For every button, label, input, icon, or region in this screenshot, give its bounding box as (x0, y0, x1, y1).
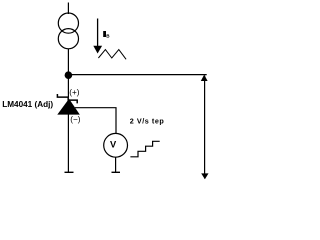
wire feedback tap to source V1 (75, 108, 116, 134)
svg-text:(−): (−) (70, 115, 81, 124)
current source I1 (two overlapping circles) (58, 13, 78, 49)
arrow IB bias current (93, 19, 102, 54)
wire node A to cathode (67, 75, 69, 97)
wire top rail (68, 74, 206, 76)
svg-text:B: B (106, 34, 110, 39)
staircase-wave symbol (130, 141, 159, 157)
wire top supply stub (67, 3, 69, 15)
LM4041 D1 anode triangle (57, 99, 80, 115)
wire anode down (67, 115, 69, 173)
svg-text:LM4041 (Adj): LM4041 (Adj) (2, 100, 53, 109)
wire current source to node A (67, 49, 69, 75)
wire source bottom (115, 157, 117, 172)
triangle-wave symbol (98, 50, 126, 60)
label IB (103, 31, 106, 37)
svg-text:(+): (+) (69, 88, 80, 97)
voltage source V1 (104, 133, 128, 157)
node A junction dot (65, 71, 73, 79)
LM4041 D1 cathode bar (57, 94, 77, 103)
svg-text:2 V/s tep: 2 V/s tep (130, 116, 165, 125)
terminal tick bottom middle (112, 171, 121, 173)
svg-text:V: V (110, 139, 117, 149)
measurement arrow output voltage (201, 75, 209, 180)
terminal tick bottom left (65, 171, 74, 173)
